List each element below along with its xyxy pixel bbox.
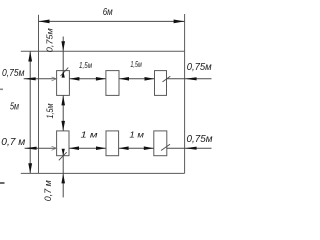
svg-text:0,75м: 0,75м — [187, 133, 213, 145]
machine row2 M6 — [154, 131, 167, 156]
svg-text:0,75м: 0,75м — [45, 28, 54, 53]
wall right (room) with top extension line — [184, 14, 186, 173]
svg-text:1,5м: 1,5м — [45, 104, 55, 119]
svg-text:0,75м: 0,75м — [187, 61, 212, 73]
row1 dim line right segment (0,75м M3 to wall) — [167, 78, 212, 80]
middle vertical dim line (1,5м between rows) — [62, 95, 64, 130]
machine row2 M5 — [106, 131, 119, 156]
svg-text:6м: 6м — [103, 7, 113, 18]
bottom vertical dim line (0,7м M4 bottom to wall) — [62, 150, 64, 198]
bottom vdim arrow down at M4 bottom — [62, 149, 65, 156]
machine M3 slash — [163, 76, 171, 82]
mid vdim arrow down at row2 top — [61, 121, 65, 131]
arrow at M1 right edge (points left) — [69, 77, 79, 81]
machine M6 slash — [161, 144, 170, 150]
row1 left arrow (points left) — [24, 77, 36, 80]
svg-text:1 м: 1 м — [81, 129, 98, 139]
machine row1 M2 — [106, 71, 119, 96]
row2 dim line left segment (0,7м wall to M4) — [25, 147, 57, 149]
arrow at M2 left edge (points right) — [96, 77, 106, 81]
row2 dim line M5-M6 (1 м) — [119, 147, 154, 149]
machine M1 slash — [61, 68, 69, 76]
scan speck left edge upper — [0, 89, 3, 91]
arrow at M2 right edge (points left) — [119, 77, 129, 81]
top vdim arrow down at wall — [61, 41, 65, 51]
machine row1 M3 — [155, 71, 167, 96]
top vertical dim line (0,75м wall to M1 top) — [62, 37, 64, 77]
scan speck left edge lower — [0, 182, 5, 184]
arrow at M4 right edge (points left) — [69, 146, 79, 150]
row1 dim line M1-M2 (1,5м) — [69, 78, 106, 80]
svg-text:1 м: 1 м — [129, 129, 144, 139]
arrow at M5 right edge (points left) — [119, 146, 129, 150]
wall bottom (room) with left extension — [21, 172, 185, 174]
arrow at M3 left edge (points right) — [145, 77, 155, 81]
dimension 5м top arrow — [28, 51, 32, 61]
row2 dim line right segment (0,75м M6 to wall) — [167, 147, 212, 149]
machine row2 M4 — [57, 131, 69, 156]
dimension 5м bottom arrow — [28, 163, 32, 173]
svg-text:1,5м: 1,5м — [130, 59, 142, 69]
mid vdim arrow up at row1 bottom — [61, 95, 65, 105]
top vdim arrow up at M1 top — [62, 71, 65, 78]
row1 dim line left segment (0,75м wall to M1) — [24, 78, 57, 80]
wall top (room) with left extension — [21, 50, 185, 52]
row1 thin arrow at M1 left edge — [52, 77, 57, 81]
machine M4 slash — [59, 152, 67, 160]
row2 left arrow (points left) — [25, 147, 37, 150]
svg-text:1,5м: 1,5м — [79, 60, 92, 70]
arrow at M6 left edge (points right) — [144, 146, 154, 150]
arrow at M5 left edge (points right) — [96, 146, 106, 150]
row2 dim line M4-M5 (1 м) — [69, 147, 106, 149]
row1 dim line M2-M3 (1,5м) — [119, 78, 155, 80]
dimension 6м right arrow — [174, 20, 185, 24]
dimension 6м left arrow — [39, 20, 50, 24]
dimension 5м line — [29, 51, 31, 173]
row1 right arrow at wall (points left) — [185, 77, 197, 80]
dimension 6м line — [39, 20, 185, 22]
bottom vdim arrow up at wall — [61, 173, 65, 183]
svg-text:0,75м: 0,75м — [2, 68, 25, 79]
row2 thin arrow at M4 left edge — [52, 146, 57, 150]
svg-text:5м: 5м — [10, 102, 19, 113]
svg-text:0,7 м: 0,7 м — [43, 180, 54, 201]
wall left (room) with top extension line — [38, 15, 40, 174]
svg-text:0,7 м: 0,7 м — [1, 137, 25, 148]
row2 right arrow at wall (points left) — [185, 147, 197, 150]
machine row1 M1 — [57, 71, 70, 96]
